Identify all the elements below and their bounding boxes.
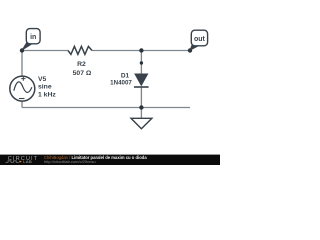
source plus sign: [21, 77, 25, 81]
logo waveform: [6, 161, 19, 162]
diode D1 cathode bar: [134, 86, 149, 88]
svg-text:LAB: LAB: [23, 159, 32, 164]
diode D1 triangle: [135, 74, 148, 85]
svg-text:out: out: [194, 36, 206, 43]
ground stub: [140, 108, 142, 119]
wire top-right horizontal (resistor to out node): [92, 50, 190, 52]
flag in: pointer tail: [21, 42, 32, 51]
svg-text:in: in: [30, 34, 36, 41]
junction dot at diode terminal: [140, 61, 143, 64]
resistor R2 zigzag: [68, 46, 92, 54]
wire left vertical (node to source): [21, 51, 23, 77]
junction dot at diode top junction: [139, 48, 143, 52]
source minus sign: [19, 98, 25, 100]
source sine squiggle: [14, 82, 32, 93]
logo diode spark: [19, 161, 22, 163]
svg-text:sine: sine: [38, 84, 52, 91]
flag out: box: [191, 30, 207, 46]
svg-text:507 Ω: 507 Ω: [73, 70, 92, 77]
wire source bottom to bottom rail: [21, 101, 23, 108]
flag in: box: [26, 29, 40, 44]
wire top-left horizontal (node to resistor): [22, 50, 68, 52]
wire diode vertical upper: [140, 51, 142, 75]
svg-text:1 kHz: 1 kHz: [38, 91, 56, 98]
svg-text:1N4007: 1N4007: [110, 80, 132, 87]
footer watermark bar: [0, 155, 220, 165]
svg-text:V5: V5: [38, 76, 47, 83]
flag out: pointer tail: [189, 44, 199, 51]
junction dot at ground junction: [139, 105, 143, 109]
voltage source V5 circle: [10, 76, 35, 101]
junction dot at in node: [20, 48, 24, 52]
svg-text:R2: R2: [77, 61, 86, 68]
wire bottom horizontal rail: [22, 107, 190, 109]
svg-text:D1: D1: [121, 73, 130, 80]
ground triangle: [131, 118, 152, 129]
wire diode vertical lower: [140, 87, 142, 108]
junction dot at out node: [188, 48, 192, 52]
svg-text:http://circuitlab.com/c/29cnsu: http://circuitlab.com/c/29cnsu: [44, 159, 96, 164]
